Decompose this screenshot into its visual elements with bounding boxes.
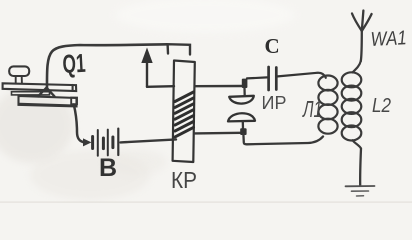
coil L2	[342, 61, 362, 149]
chopper KP top cap	[168, 44, 190, 54]
wire node to spark gap upper electrode	[243, 88, 245, 96]
wire L2 to ground	[359, 149, 362, 186]
wire KP to bottom node	[195, 132, 241, 135]
wire lower electrode to bottom node	[242, 122, 244, 130]
svg-text:C: C	[265, 34, 280, 58]
coil L1	[317, 73, 338, 134]
spark gap ИР upper electrode	[229, 96, 254, 104]
capacitor C	[247, 67, 317, 90]
wire from key down to battery	[74, 105, 92, 147]
svg-text:ИР: ИР	[262, 93, 287, 113]
label L2	[372, 94, 391, 117]
wire KP to top node	[195, 85, 242, 88]
label B	[99, 154, 117, 182]
battery B	[93, 129, 119, 156]
label ИР	[262, 93, 287, 113]
vibrator contact arrow	[141, 48, 174, 87]
chopper KP body	[173, 61, 195, 163]
svg-text:WA1: WA1	[370, 27, 407, 51]
label Л1	[302, 96, 322, 122]
label KP	[171, 167, 197, 193]
top node junction	[242, 79, 248, 88]
svg-text:B: B	[99, 154, 117, 182]
wire bottom node to L1 bottom	[243, 134, 323, 144]
svg-text:L2: L2	[372, 94, 391, 117]
svg-text:Л1: Л1	[302, 96, 322, 122]
label C	[265, 34, 280, 58]
chopper KP hatch band	[175, 92, 194, 137]
antenna WA1	[352, 11, 372, 62]
label WA1	[370, 27, 407, 51]
svg-text:КР: КР	[171, 167, 197, 193]
bottom node junction	[240, 128, 246, 135]
wire battery to KP	[121, 139, 177, 142]
spark gap ИР lower electrode	[228, 113, 255, 121]
telegraph key Q1	[3, 66, 77, 106]
wire from key lever up to top rail	[47, 44, 167, 89]
ground	[346, 186, 375, 196]
svg-text:Q1: Q1	[62, 48, 87, 79]
label Q1	[62, 48, 87, 79]
